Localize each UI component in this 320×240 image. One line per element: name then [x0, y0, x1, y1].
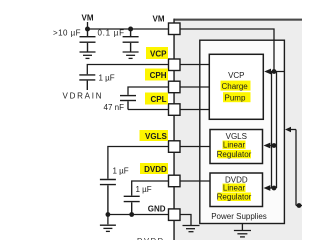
ground G5 under Power Supplies box: [234, 224, 251, 237]
capacitor C3 1uF VDRAIN: [79, 75, 95, 90]
block U1c DVDD Linear Regulator: [210, 173, 263, 207]
wire VGLS to C5: [108, 147, 169, 179]
node dot DVDD branch: [272, 186, 277, 191]
pin CPH: [169, 81, 181, 93]
ground C1: [80, 52, 96, 58]
pin GND: [169, 209, 181, 221]
wire VM pin to bus W1: [180, 29, 274, 72]
svg-text:DVDD: DVDD: [137, 236, 164, 240]
pin DVDD label highlight: [140, 163, 168, 174]
svg-text:1 µF: 1 µF: [113, 167, 129, 176]
capacitor C2 0.1uF: [123, 29, 139, 52]
arrow into PS box: [285, 127, 291, 132]
pin VCP label highlight: [146, 47, 168, 59]
svg-text:Pump: Pump: [225, 94, 246, 103]
svg-text:GND: GND: [148, 204, 166, 213]
chip left border: [173, 19, 175, 240]
pin VCP: [169, 59, 181, 71]
wire VCP branch: [266, 71, 284, 73]
chip U1 body: [174, 19, 302, 240]
svg-text:47 nF: 47 nF: [104, 103, 125, 112]
block U1a VCP Charge Pump: [209, 54, 263, 119]
Power Supplies box: [200, 40, 285, 223]
svg-text:1 µF: 1 µF: [136, 185, 152, 194]
svg-text:Linear: Linear: [223, 184, 246, 193]
wire CPH to C4: [128, 87, 169, 95]
node VM junction 1: [85, 27, 90, 32]
svg-text:Regulator: Regulator: [217, 150, 252, 159]
pin VGLS label highlight: [140, 130, 169, 141]
wire DVDD branch: [266, 187, 277, 189]
wire arrow into Power Supplies box edge: [287, 129, 296, 131]
wire rail R2 down: [276, 72, 278, 189]
svg-text:Power Supplies: Power Supplies: [211, 212, 267, 221]
chip top border: [174, 19, 302, 21]
ground G3: [100, 215, 116, 232]
node VM junction 2: [128, 27, 133, 32]
pin CPH label highlight: [145, 69, 168, 81]
wire to right edge: [296, 205, 302, 207]
wire C4 to CPL: [128, 109, 169, 111]
wire GND pin to G4: [180, 215, 191, 227]
pin wire VCP stub: [180, 64, 209, 66]
svg-text:>10 µF: >10 µF: [53, 29, 81, 38]
capacitor C1 >10uF: [80, 29, 96, 52]
arrow into VCP block: [264, 69, 271, 75]
pin CPL: [169, 104, 181, 116]
svg-text:VDRAIN: VDRAIN: [63, 92, 102, 101]
pin wire CPH stub: [180, 86, 209, 88]
node dot VGLS branch: [272, 143, 277, 148]
svg-text:Charge: Charge: [222, 82, 249, 91]
svg-text:1 µF: 1 µF: [99, 74, 115, 83]
block U1b VGLS Linear Regulator: [210, 130, 263, 164]
pin VGLS: [169, 141, 181, 153]
pin CPL label highlight: [145, 93, 168, 105]
ground C2: [123, 52, 139, 58]
node junction C5-GND: [106, 212, 111, 217]
wire VM rail top: [88, 22, 169, 29]
pin DVDD: [169, 175, 181, 187]
svg-text:CPL: CPL: [151, 95, 167, 104]
capacitor C4 47nF: [120, 96, 136, 110]
wire V4 right bus: [295, 130, 297, 206]
svg-text:VM: VM: [82, 14, 94, 23]
wire VGLS branch: [266, 145, 277, 147]
Pump highlight: [223, 92, 251, 102]
pin VM: [169, 23, 181, 35]
node dot W1-VCP branch: [272, 69, 277, 74]
wire rail R1 down: [271, 72, 273, 189]
svg-text:Regulator: Regulator: [217, 193, 252, 202]
svg-text:0.1 µF: 0.1 µF: [98, 29, 125, 38]
capacitor C6 1uF: [124, 196, 140, 214]
svg-text:CPH: CPH: [150, 71, 167, 80]
Charge highlight: [221, 81, 251, 91]
pin wire VGLS stub: [180, 146, 210, 148]
svg-text:VGLS: VGLS: [145, 132, 167, 141]
svg-text:VM: VM: [153, 15, 165, 24]
wire DVDD to C6: [132, 181, 169, 196]
wire VCP to C3: [87, 65, 168, 75]
capacitor C5 1uF: [100, 180, 116, 215]
svg-text:VCP: VCP: [150, 50, 167, 59]
pin wire DVDD stub: [180, 180, 210, 182]
pin wire CPL stub: [180, 109, 209, 111]
svg-text:VCP: VCP: [228, 71, 244, 80]
svg-text:DVDD: DVDD: [144, 165, 167, 174]
arrow into DVDD block: [264, 185, 271, 191]
node dot right edge: [297, 203, 302, 208]
wire GND rail: [108, 214, 169, 216]
svg-text:Linear: Linear: [223, 141, 246, 150]
ground G4: [183, 226, 200, 232]
arrow into VGLS block: [264, 143, 271, 149]
node junction C6-GND: [129, 212, 134, 217]
